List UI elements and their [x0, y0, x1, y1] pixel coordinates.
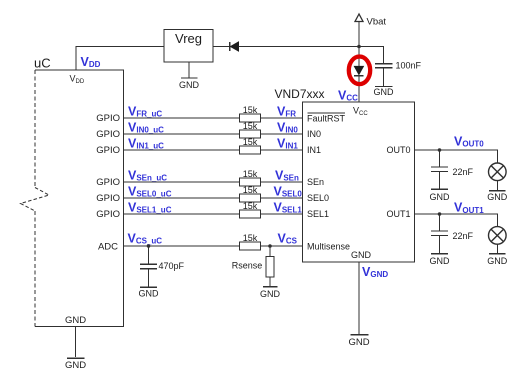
svg-text:Rsense: Rsense	[232, 260, 263, 270]
lamp load 1	[489, 227, 507, 253]
resistor R1 15k	[240, 114, 261, 122]
svg-text:GPIO: GPIO	[96, 129, 120, 140]
ground (C4)	[430, 254, 451, 267]
node junction at Vcc rail	[357, 45, 361, 49]
svg-text:IN1: IN1	[307, 145, 321, 155]
svg-text:GPIO: GPIO	[96, 209, 120, 220]
wire row IN0	[124, 133, 303, 135]
svg-text:GND: GND	[139, 289, 160, 299]
ground (470pF)	[139, 287, 160, 298]
svg-text:GND: GND	[348, 337, 369, 348]
svg-text:Vbat: Vbat	[367, 17, 387, 28]
capacitor C3 22nF	[431, 150, 448, 189]
ground (lamp 0)	[487, 191, 508, 202]
svg-text:15k: 15k	[243, 105, 258, 115]
svg-text:VSEL0: VSEL0	[274, 185, 303, 199]
svg-text:GND: GND	[65, 315, 86, 326]
svg-text:VOUT1: VOUT1	[454, 201, 484, 215]
ground (100nF)	[374, 87, 395, 97]
svg-text:ADC: ADC	[98, 242, 118, 253]
svg-text:VND7xxx: VND7xxx	[275, 87, 325, 101]
svg-text:IN0: IN0	[307, 129, 321, 139]
node junction at OUT1 cap	[438, 212, 442, 216]
resistor R3 15k	[240, 146, 261, 154]
svg-text:15k: 15k	[243, 121, 258, 131]
diode D1 (reverse battery, pointing left)	[230, 42, 239, 51]
capacitor C4 22nF	[431, 214, 448, 253]
svg-text:VCS: VCS	[278, 232, 298, 246]
ground (C3)	[430, 189, 451, 202]
svg-text:VSEn_uC: VSEn_uC	[128, 169, 167, 183]
svg-text:VIN0: VIN0	[277, 121, 298, 135]
svg-text:15k: 15k	[243, 169, 258, 179]
svg-text:GPIO: GPIO	[96, 193, 120, 204]
pin label FaultRST with overline	[307, 113, 346, 124]
svg-text:SEn: SEn	[307, 177, 324, 187]
voltage regulator Vreg	[164, 30, 213, 63]
wire row SEL0	[124, 197, 303, 199]
svg-text:GND: GND	[487, 192, 508, 202]
svg-text:100nF: 100nF	[396, 61, 422, 71]
svg-text:GPIO: GPIO	[96, 145, 120, 156]
capacitor C2 470pF	[140, 246, 157, 286]
svg-text:GND: GND	[374, 87, 395, 97]
wire OUT0	[415, 150, 498, 163]
svg-text:GND: GND	[260, 289, 281, 299]
diode D2 vertical (to Vcc pin)	[354, 47, 363, 103]
svg-text:15k: 15k	[243, 233, 258, 243]
svg-text:Vreg: Vreg	[175, 31, 202, 46]
svg-text:VIN1: VIN1	[277, 137, 298, 151]
svg-text:OUT0: OUT0	[386, 145, 410, 155]
resistor R2 15k	[240, 130, 261, 138]
svg-text:VSEL1: VSEL1	[274, 201, 303, 215]
svg-text:FaultRST: FaultRST	[307, 114, 346, 124]
node junction at OUT0 cap	[438, 148, 442, 152]
svg-text:uC: uC	[34, 56, 51, 71]
Vbat supply symbol	[355, 14, 363, 47]
svg-text:22nF: 22nF	[453, 167, 474, 177]
ground (chip GND pin)	[348, 262, 369, 348]
wire row IN1	[124, 149, 303, 151]
wire row Multisense / CS	[124, 245, 303, 247]
svg-text:VSEn: VSEn	[275, 169, 299, 183]
IC U1 VND7xxx	[303, 102, 415, 262]
svg-text:VCC: VCC	[338, 89, 358, 103]
svg-text:GND: GND	[487, 256, 508, 266]
svg-text:15k: 15k	[243, 185, 258, 195]
node junction at Rsense	[268, 244, 272, 248]
svg-text:470pF: 470pF	[159, 261, 185, 271]
svg-text:Multisense: Multisense	[307, 242, 350, 252]
wire junction to 100nF cap	[359, 47, 384, 64]
ground (Vreg)	[179, 62, 200, 90]
svg-text:VFR_uC: VFR_uC	[128, 105, 162, 119]
capacitor C1 100nF	[375, 64, 393, 86]
svg-text:VDD: VDD	[70, 73, 85, 85]
resistor R4 15k	[240, 178, 261, 186]
svg-text:GND: GND	[65, 360, 86, 371]
svg-text:22nF: 22nF	[453, 231, 474, 241]
svg-text:15k: 15k	[243, 137, 258, 147]
svg-text:VSEL0_uC: VSEL0_uC	[128, 185, 172, 199]
wire row FaultRST	[124, 117, 303, 119]
svg-text:VGND: VGND	[362, 265, 388, 279]
svg-text:VIN1_uC: VIN1_uC	[128, 137, 164, 151]
resistor Rsense vertical	[266, 246, 274, 286]
resistor R7 15k	[240, 242, 261, 250]
wire OUT1	[415, 214, 498, 227]
svg-text:GND: GND	[351, 250, 372, 260]
resistor R5 15k	[240, 194, 261, 202]
svg-text:VIN0_uC: VIN0_uC	[128, 121, 164, 135]
uC block	[35, 70, 124, 327]
break squiggle on uC left edge	[21, 188, 50, 212]
wire row SEL1	[124, 213, 303, 215]
svg-text:GPIO: GPIO	[96, 113, 120, 124]
svg-text:GPIO: GPIO	[96, 177, 120, 188]
svg-text:SEL0: SEL0	[307, 193, 329, 203]
svg-text:VDD: VDD	[81, 55, 101, 69]
svg-text:SEL1: SEL1	[307, 209, 329, 219]
wire diode to Vcc node	[239, 46, 360, 48]
wire Vreg output to diode	[213, 46, 229, 48]
resistor R6 15k	[240, 210, 261, 218]
wire row SEn	[124, 181, 303, 183]
ground (Rsense)	[260, 287, 281, 299]
ground (uC GND pin)	[65, 327, 86, 372]
svg-text:15k: 15k	[243, 201, 258, 211]
lamp load 0	[489, 163, 507, 190]
svg-text:GND: GND	[179, 80, 200, 90]
ground (lamp 1)	[487, 254, 508, 266]
svg-text:VFR: VFR	[277, 105, 296, 119]
svg-text:GND: GND	[430, 256, 451, 266]
svg-text:VOUT0: VOUT0	[454, 135, 484, 149]
svg-text:GND: GND	[430, 192, 451, 202]
wire VDD vertical from uC to Vreg rail	[76, 47, 164, 71]
red highlight ellipse around D2	[349, 57, 370, 85]
svg-text:VSEL1_uC: VSEL1_uC	[128, 201, 172, 215]
svg-text:OUT1: OUT1	[386, 209, 410, 219]
node junction at 470pF	[147, 244, 151, 248]
svg-text:VCS_uC: VCS_uC	[128, 232, 163, 246]
